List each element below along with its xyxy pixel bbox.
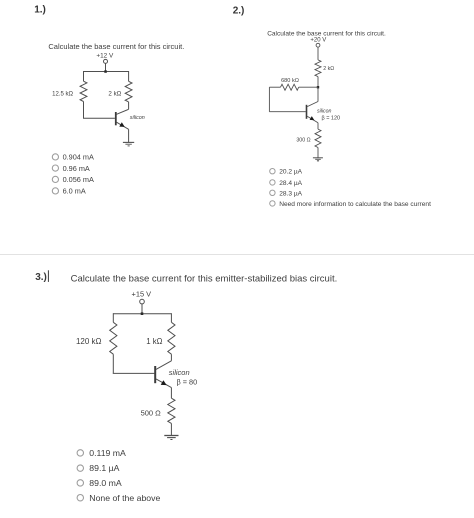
svg-text:28.4 µA: 28.4 µA bbox=[279, 180, 302, 187]
radio option P3-1 bbox=[77, 448, 126, 458]
ground P1 bbox=[123, 142, 134, 146]
radio option P1-3 bbox=[52, 175, 94, 184]
wire resistor to collector node P2 bbox=[317, 77, 319, 102]
resistor R3 value label 2 kΩ bbox=[323, 66, 334, 72]
svg-text:+15 V: +15 V bbox=[132, 290, 152, 299]
transistor Q1 label silicon bbox=[130, 115, 145, 121]
wire resistor to ground P2 bbox=[317, 148, 319, 158]
resistor R1 value label 12.5 kΩ bbox=[52, 92, 73, 98]
svg-text:β = 80: β = 80 bbox=[177, 378, 198, 387]
transistor Q2 emitter bbox=[307, 116, 318, 123]
wire collector lead P3 bbox=[170, 354, 172, 361]
svg-text:Calculate the base current for: Calculate the base current for this circ… bbox=[267, 31, 386, 38]
resistor R5 value label 300 Ω bbox=[296, 137, 310, 143]
wire left branch bottom P3 bbox=[112, 354, 114, 373]
section divider bbox=[0, 254, 474, 256]
transistor Q3 label silicon bbox=[169, 368, 190, 377]
svg-text:20.2 µA: 20.2 µA bbox=[279, 169, 302, 176]
svg-text:Calculate the base current for: Calculate the base current for this emit… bbox=[71, 273, 338, 284]
wire left branch top P1 bbox=[83, 71, 85, 81]
section label 1.) bbox=[34, 4, 46, 15]
wire terminal to rail P1 bbox=[105, 63, 107, 71]
transistor Q2 label silicon bbox=[317, 108, 332, 114]
radio option P2-3 bbox=[270, 190, 303, 197]
supply terminal circle P2 bbox=[316, 43, 320, 47]
svg-text:silicon: silicon bbox=[317, 108, 332, 114]
svg-text:2 kΩ: 2 kΩ bbox=[323, 66, 334, 72]
svg-text:0.96 mA: 0.96 mA bbox=[63, 164, 90, 173]
resistor R6 120k zigzag bbox=[110, 322, 117, 354]
wire emitter to resistor P3 bbox=[170, 388, 172, 399]
wire terminal to resistor P2 bbox=[317, 47, 319, 60]
radio option P3-3 bbox=[77, 478, 122, 488]
svg-text:silicon: silicon bbox=[130, 115, 145, 121]
radio option P1-1 bbox=[52, 153, 94, 162]
svg-text:12.5 kΩ: 12.5 kΩ bbox=[52, 92, 73, 98]
resistor R2 2k zigzag bbox=[125, 81, 132, 102]
svg-text:+20 V: +20 V bbox=[310, 37, 326, 43]
wire collector lead P1 bbox=[128, 102, 130, 109]
wire base P1 bbox=[83, 117, 115, 119]
svg-text:β = 120: β = 120 bbox=[322, 116, 341, 122]
resistor R1 12.5k zigzag bbox=[80, 81, 87, 101]
radio option P3-2 bbox=[77, 463, 120, 473]
junction node P2 bbox=[317, 86, 319, 88]
radio option P3-4 bbox=[77, 493, 160, 503]
transistor Q1 collector bbox=[117, 109, 129, 114]
svg-text:0.119 mA: 0.119 mA bbox=[89, 448, 126, 458]
resistor R7 1k zigzag bbox=[168, 322, 175, 354]
transistor Q3 base bar bbox=[154, 366, 156, 383]
resistor R7 value label 1 kΩ bbox=[146, 337, 162, 346]
wire terminal to rail P3 bbox=[141, 304, 143, 314]
wire left branch bottom P1 bbox=[83, 102, 85, 119]
resistor R5 300 zigzag bbox=[315, 129, 321, 147]
wire base P3 bbox=[113, 372, 155, 374]
svg-text:0.056 mA: 0.056 mA bbox=[63, 175, 94, 184]
problem 3 title bbox=[71, 273, 338, 284]
svg-text:89.1 µA: 89.1 µA bbox=[89, 463, 119, 473]
svg-text:680 kΩ: 680 kΩ bbox=[281, 78, 299, 84]
wire resistor to ground P3 bbox=[170, 423, 172, 435]
svg-text:6.0 mA: 6.0 mA bbox=[63, 187, 86, 196]
svg-text:silicon: silicon bbox=[169, 368, 190, 377]
wire left branch top P3 bbox=[112, 313, 114, 322]
resistor R4 680k zigzag bbox=[281, 84, 299, 90]
svg-text:120 kΩ: 120 kΩ bbox=[76, 337, 102, 346]
wire feedback to base P2 bbox=[269, 111, 305, 113]
wire node to feedback resistor P2 bbox=[299, 86, 318, 88]
svg-text:None of the above: None of the above bbox=[89, 493, 160, 503]
svg-text:28.3 µA: 28.3 µA bbox=[279, 190, 302, 197]
wire right branch top P1 bbox=[128, 71, 130, 81]
node +15V supply label bbox=[132, 290, 152, 299]
problem 1 title bbox=[48, 42, 184, 51]
svg-text:1.): 1.) bbox=[34, 4, 46, 15]
resistor R3 2k zigzag bbox=[315, 60, 321, 77]
radio option P1-2 bbox=[52, 164, 90, 173]
node +20V supply label bbox=[310, 37, 326, 43]
transistor Q1 base bar bbox=[115, 112, 117, 125]
transistor Q2 collector bbox=[307, 102, 318, 107]
text cursor after 3.) bbox=[47, 270, 49, 282]
resistor R8 value label 500 Ω bbox=[141, 409, 162, 418]
svg-text:0.904 mA: 0.904 mA bbox=[63, 153, 94, 162]
svg-text:2 kΩ: 2 kΩ bbox=[108, 91, 121, 98]
radio option P2-4 bbox=[270, 201, 431, 208]
ground P3 bbox=[164, 436, 178, 440]
section label 2.) bbox=[233, 5, 245, 16]
transistor Q3 collector bbox=[156, 361, 171, 370]
wire top rail P1 bbox=[84, 71, 129, 73]
transistor Q1 emitter bbox=[117, 122, 129, 129]
svg-text:+12 V: +12 V bbox=[96, 52, 114, 59]
resistor R8 500 zigzag bbox=[168, 398, 175, 423]
wire emitter to ground P1 bbox=[128, 129, 130, 142]
resistor R4 value label 680 kΩ bbox=[281, 78, 299, 84]
svg-text:500 Ω: 500 Ω bbox=[141, 409, 162, 418]
ground P2 bbox=[313, 158, 323, 162]
wire feedback left vertical P2 bbox=[269, 87, 280, 112]
transistor Q2 label beta 120 bbox=[322, 116, 341, 122]
resistor R6 value label 120 kΩ bbox=[76, 337, 102, 346]
svg-text:3.): 3.) bbox=[35, 272, 47, 283]
resistor R2 value label 2 kΩ bbox=[108, 91, 121, 98]
wire right branch top P3 bbox=[170, 313, 172, 322]
transistor Q3 label beta 80 bbox=[177, 378, 198, 387]
junction node P1 bbox=[104, 70, 107, 73]
svg-text:Calculate the base current for: Calculate the base current for this circ… bbox=[48, 42, 184, 51]
radio option P2-1 bbox=[270, 169, 303, 176]
svg-text:Need more information to calcu: Need more information to calculate the b… bbox=[279, 201, 431, 208]
problem 2 title bbox=[267, 31, 386, 38]
radio option P2-2 bbox=[270, 180, 303, 187]
svg-text:89.0 mA: 89.0 mA bbox=[89, 478, 122, 488]
transistor Q3 emitter bbox=[156, 379, 171, 388]
radio option P1-4 bbox=[52, 187, 86, 196]
svg-text:1 kΩ: 1 kΩ bbox=[146, 337, 162, 346]
wire emitter to resistor P2 bbox=[317, 123, 319, 129]
svg-text:300 Ω: 300 Ω bbox=[296, 137, 310, 143]
svg-text:2.): 2.) bbox=[233, 5, 245, 16]
supply terminal circle P3 bbox=[140, 299, 145, 304]
transistor Q2 base bar bbox=[306, 105, 308, 119]
node +12V supply label bbox=[96, 52, 114, 59]
wire top rail P3 bbox=[113, 313, 171, 315]
section label 3.) bbox=[35, 272, 47, 283]
supply terminal circle P1 bbox=[104, 59, 108, 63]
junction node P3 bbox=[141, 312, 144, 315]
